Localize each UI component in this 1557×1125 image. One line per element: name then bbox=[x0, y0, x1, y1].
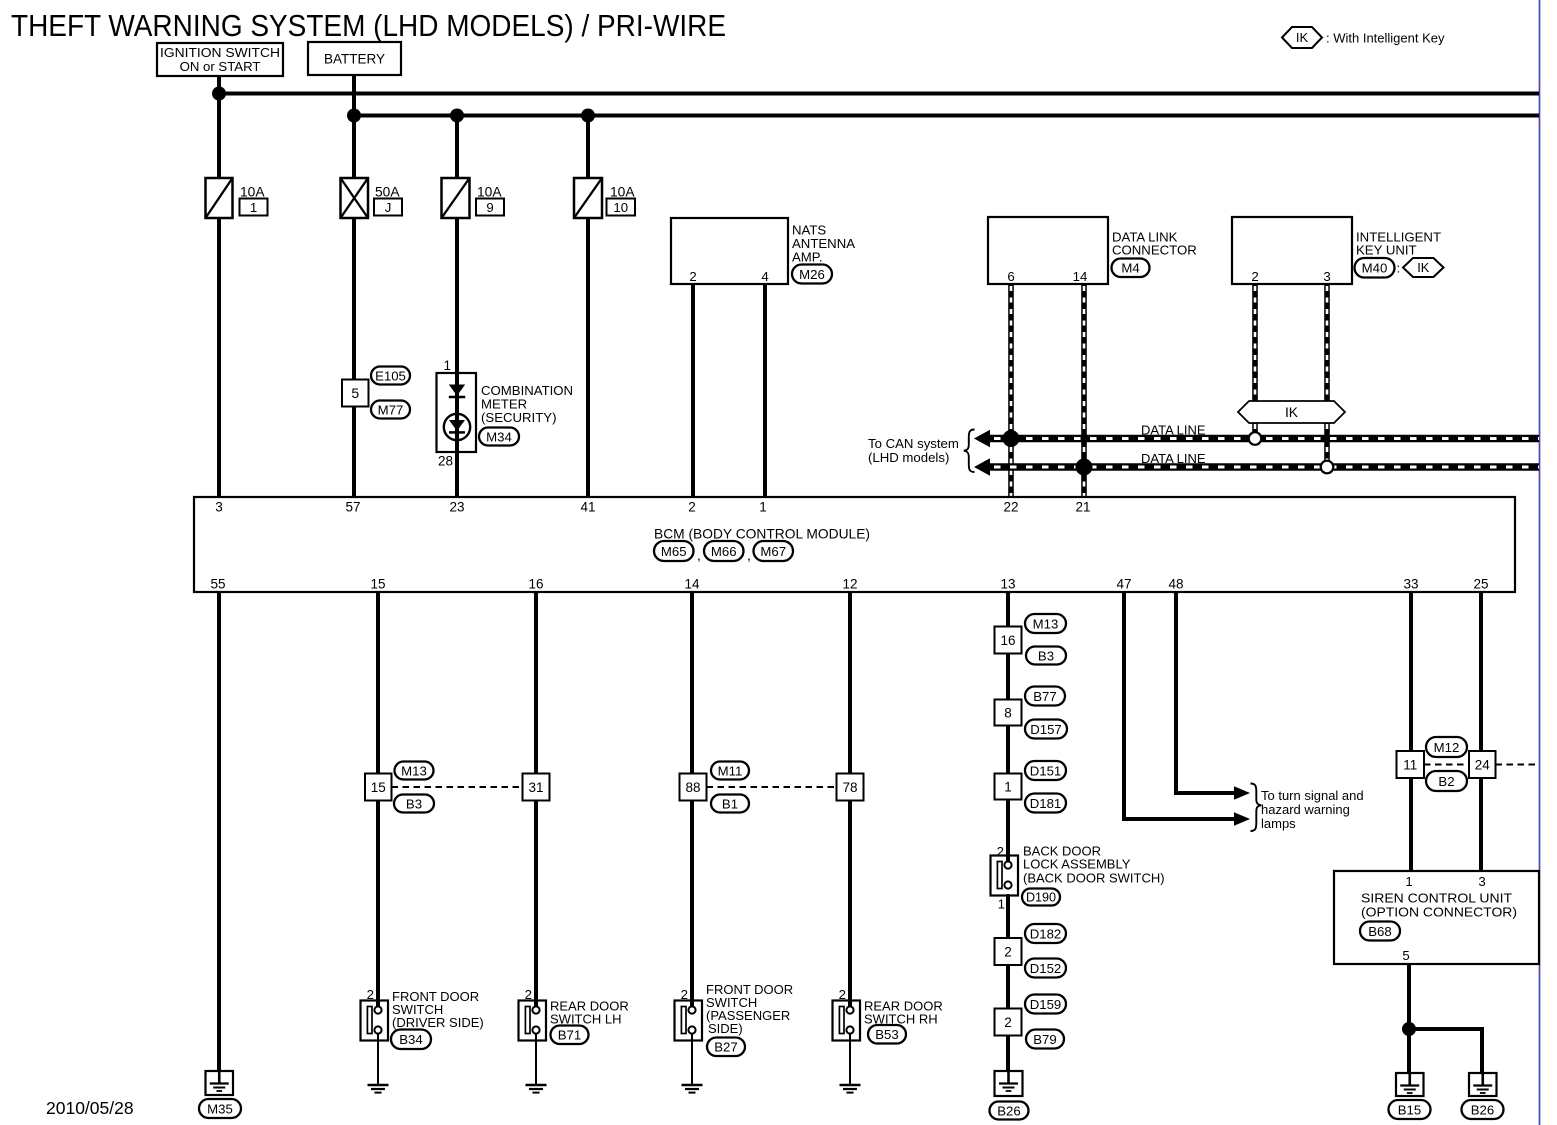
CAN data line 1 bbox=[990, 435, 1539, 442]
dashed link connector 15 to 31 bbox=[392, 786, 523, 788]
svg-text:16: 16 bbox=[528, 577, 543, 592]
svg-text:D181: D181 bbox=[1030, 796, 1062, 811]
ignition switch source box bbox=[157, 43, 283, 76]
BCM top pin 3 bbox=[215, 500, 223, 515]
svg-text:THEFT WARNING SYSTEM (LHD MODE: THEFT WARNING SYSTEM (LHD MODELS) / PRI-… bbox=[11, 9, 726, 43]
svg-text:M13: M13 bbox=[401, 763, 427, 778]
svg-text:16: 16 bbox=[1000, 633, 1015, 648]
svg-text:D182: D182 bbox=[1030, 926, 1062, 941]
wire fuse 10 to BCM pin 41 bbox=[586, 218, 590, 498]
combination meter pin 1 bbox=[443, 358, 451, 373]
BCM bottom pin 13 bbox=[1000, 577, 1015, 592]
connector circle IKU3 data line 2 bbox=[1321, 461, 1334, 474]
wire ignition to bus1 bbox=[217, 76, 221, 93]
svg-text:(DRIVER SIDE): (DRIVER SIDE) bbox=[392, 1015, 484, 1030]
rear door switch LH pin 2 bbox=[525, 987, 532, 1002]
svg-text:9: 9 bbox=[486, 200, 493, 215]
fuse 1 10A bbox=[206, 178, 268, 218]
svg-text:IK: IK bbox=[1296, 30, 1309, 45]
svg-text:(SECURITY): (SECURITY) bbox=[481, 410, 556, 425]
wire front door switch driver to ground bbox=[377, 1034, 379, 1086]
svg-text:B26: B26 bbox=[997, 1103, 1020, 1118]
wire BCM pin55 to ground M35 bbox=[217, 592, 221, 1072]
svg-text:M13: M13 bbox=[1033, 616, 1059, 631]
combination meter labels bbox=[479, 383, 573, 446]
wire rear door switch LH to ground bbox=[535, 1034, 537, 1086]
svg-text:B71: B71 bbox=[558, 1028, 581, 1043]
siren control unit box B68 bbox=[1334, 871, 1539, 964]
to turn signal label bbox=[1251, 784, 1364, 832]
svg-text:AMP.: AMP. bbox=[792, 250, 823, 265]
svg-text:57: 57 bbox=[345, 500, 360, 515]
svg-text:88: 88 bbox=[685, 780, 700, 795]
combination meter pin 28 bbox=[438, 454, 453, 469]
wire BCM pin16 to rear door switch LH bbox=[534, 592, 538, 1001]
dashed stub from connector 24 bbox=[1496, 764, 1539, 766]
svg-text:41: 41 bbox=[580, 500, 595, 515]
svg-text:DATA LINE: DATA LINE bbox=[1141, 451, 1206, 466]
wire rear door switch RH to ground bbox=[849, 1034, 851, 1086]
front door switch passenger labels bbox=[706, 982, 793, 1056]
data line wire IKU pin2 bbox=[1252, 284, 1258, 439]
ground B15 bbox=[1389, 1073, 1431, 1119]
CAN data line 2 bbox=[990, 463, 1539, 470]
data line wire DLC pin14 to BCM pin 21 bbox=[1081, 284, 1087, 498]
wire fuse1 to BCM pin 3 bbox=[217, 218, 221, 498]
BCM bottom pin 14 bbox=[684, 577, 700, 592]
wire bus2 to fuse J bbox=[352, 116, 356, 181]
svg-text:5: 5 bbox=[1402, 948, 1409, 963]
svg-text:BCM (BODY CONTROL MODULE): BCM (BODY CONTROL MODULE) bbox=[654, 527, 870, 542]
wire BCM pin15 to front door switch driver bbox=[376, 592, 380, 1001]
svg-text:10A: 10A bbox=[477, 185, 502, 200]
svg-text:13: 13 bbox=[1000, 577, 1015, 592]
wire BCM pin48 to turn signal lamps bbox=[1174, 592, 1235, 793]
BCM bottom pin 15 bbox=[370, 577, 385, 592]
svg-text:2: 2 bbox=[688, 500, 696, 515]
wire NATS pin2 to BCM pin 2 bbox=[691, 284, 695, 498]
combination meter (security) M34 bbox=[437, 373, 477, 452]
fuse J 50A bbox=[341, 178, 403, 218]
ground front door switch passenger bbox=[682, 1085, 703, 1093]
svg-text:47: 47 bbox=[1116, 577, 1131, 592]
svg-text:1: 1 bbox=[1004, 779, 1012, 794]
svg-text:2: 2 bbox=[1004, 1015, 1012, 1030]
svg-text:BATTERY: BATTERY bbox=[324, 52, 385, 67]
svg-text:lamps: lamps bbox=[1261, 816, 1296, 831]
power bus 1 (ignition) bbox=[219, 92, 1539, 96]
connector circle IKU2 data line 1 bbox=[1249, 432, 1262, 445]
battery source box bbox=[308, 42, 401, 75]
data link connector M4 bbox=[988, 217, 1108, 284]
svg-text:50A: 50A bbox=[375, 185, 400, 200]
to CAN system label bbox=[868, 430, 975, 473]
wire bus1 to fuse 1 bbox=[217, 94, 221, 181]
dashed link connector 88 to 78 bbox=[707, 786, 838, 788]
junction siren ground branch bbox=[1402, 1022, 1416, 1036]
svg-text:78: 78 bbox=[842, 780, 857, 795]
data line wire DLC pin6 to BCM pin 22 bbox=[1008, 284, 1014, 498]
connector 15 M13/B3 bbox=[365, 762, 434, 813]
title bbox=[11, 9, 726, 43]
BCM bottom pin 55 bbox=[210, 577, 225, 592]
data line wire IKU pin3 bbox=[1324, 284, 1330, 467]
svg-text:B2: B2 bbox=[1438, 774, 1454, 789]
wire BCM pin12 to rear door switch RH bbox=[848, 592, 852, 1001]
svg-text:22: 22 bbox=[1003, 500, 1018, 515]
svg-text:B53: B53 bbox=[875, 1027, 898, 1042]
svg-text:B77: B77 bbox=[1033, 689, 1056, 704]
ground rear door switch LH bbox=[526, 1085, 547, 1093]
rear door switch RH B53 bbox=[833, 1000, 861, 1041]
intelligent key unit M40 bbox=[1232, 217, 1352, 284]
svg-text:B34: B34 bbox=[399, 1032, 422, 1047]
svg-text:B79: B79 bbox=[1033, 1032, 1056, 1047]
junction bus1/ignition bbox=[212, 87, 226, 101]
connector 16 M13/B3 bbox=[995, 614, 1067, 665]
svg-text:KEY UNIT: KEY UNIT bbox=[1356, 243, 1417, 258]
svg-text:15: 15 bbox=[370, 577, 385, 592]
power bus 2 (battery) bbox=[354, 114, 1539, 118]
wire BCM pin33 to siren pin1 bbox=[1409, 592, 1413, 872]
back door lock assembly switch D190 bbox=[991, 855, 1019, 896]
svg-text:1: 1 bbox=[250, 200, 257, 215]
svg-text:IK: IK bbox=[1417, 260, 1430, 275]
ground B26 back door circuit bbox=[990, 1071, 1029, 1120]
BCM bottom pin 16 bbox=[528, 577, 543, 592]
wire bus2 to fuse 9 bbox=[455, 116, 459, 181]
svg-text:2: 2 bbox=[1251, 269, 1258, 284]
BCM bottom pin 33 bbox=[1403, 577, 1418, 592]
svg-text:23: 23 bbox=[449, 500, 464, 515]
svg-text:M34: M34 bbox=[486, 429, 512, 444]
svg-text:J: J bbox=[385, 200, 392, 215]
BCM top pin 57 bbox=[345, 500, 360, 515]
svg-text:: With Intelligent Key: : With Intelligent Key bbox=[1326, 31, 1445, 46]
rear door switch RH labels bbox=[864, 999, 943, 1044]
svg-text:M66: M66 bbox=[711, 544, 737, 559]
svg-text:M67: M67 bbox=[760, 544, 786, 559]
connector 31 bbox=[523, 774, 550, 801]
svg-text:SWITCH LH: SWITCH LH bbox=[550, 1012, 622, 1027]
ground rear door switch RH bbox=[840, 1085, 861, 1093]
svg-text:33: 33 bbox=[1403, 577, 1418, 592]
blue page border bbox=[1539, 0, 1541, 1125]
BCM top pin 1 bbox=[759, 500, 767, 515]
arrow to CAN system line 2 bbox=[974, 458, 990, 476]
svg-text:M77: M77 bbox=[378, 402, 404, 417]
back door switch pin 1 bbox=[998, 897, 1005, 912]
svg-text:B68: B68 bbox=[1368, 924, 1391, 939]
svg-text:31: 31 bbox=[528, 780, 543, 795]
svg-text:D190: D190 bbox=[1026, 891, 1056, 905]
ground M35 bbox=[199, 1071, 241, 1118]
svg-text:10A: 10A bbox=[240, 185, 265, 200]
svg-text:M4: M4 bbox=[1121, 261, 1139, 276]
ground front door switch driver bbox=[368, 1085, 389, 1093]
connector 2 D182/D152 bbox=[995, 924, 1067, 978]
svg-text:21: 21 bbox=[1075, 500, 1090, 515]
wire battery to bus2 bbox=[352, 75, 356, 117]
svg-text:B27: B27 bbox=[714, 1040, 737, 1055]
svg-text:To turn signal and: To turn signal and bbox=[1261, 788, 1364, 803]
svg-text:M11: M11 bbox=[718, 763, 743, 778]
svg-text:4: 4 bbox=[761, 269, 768, 284]
svg-text:48: 48 bbox=[1168, 577, 1183, 592]
svg-text:25: 25 bbox=[1473, 577, 1488, 592]
data line label 2 bbox=[1141, 451, 1206, 466]
BCM top pin 41 bbox=[580, 500, 595, 515]
BCM bottom pin 47 bbox=[1116, 577, 1131, 592]
wire combination meter to BCM pin 23 bbox=[455, 452, 459, 498]
NATS antenna amp labels bbox=[792, 223, 855, 284]
svg-text:,: , bbox=[747, 547, 751, 563]
arrow turn signal 48 bbox=[1234, 786, 1250, 800]
svg-text:B1: B1 bbox=[722, 796, 738, 811]
connector 88 M11/B1 bbox=[680, 762, 750, 813]
junction DLC6 data line 1 bbox=[1003, 430, 1020, 447]
front door switch passenger B27 bbox=[675, 1000, 703, 1041]
connector 24 bbox=[1469, 751, 1496, 778]
svg-text:To CAN system: To CAN system bbox=[868, 436, 959, 451]
svg-text:1: 1 bbox=[1405, 874, 1412, 889]
svg-text:LOCK ASSEMBLY: LOCK ASSEMBLY bbox=[1023, 857, 1131, 872]
svg-text:(BACK DOOR SWITCH): (BACK DOOR SWITCH) bbox=[1023, 871, 1165, 886]
svg-text:B15: B15 bbox=[1398, 1102, 1421, 1117]
svg-text:E105: E105 bbox=[375, 368, 406, 383]
svg-text:IGNITION SWITCH: IGNITION SWITCH bbox=[160, 45, 280, 60]
connector 1 D151/D181 bbox=[995, 761, 1067, 813]
svg-text:SIREN CONTROL UNIT: SIREN CONTROL UNIT bbox=[1361, 891, 1512, 906]
svg-text:1: 1 bbox=[998, 897, 1005, 912]
wire fuse J to BCM pin 57 bbox=[352, 218, 356, 498]
connector 78 bbox=[837, 774, 864, 801]
svg-text:2: 2 bbox=[1004, 944, 1012, 959]
svg-text:11: 11 bbox=[1403, 757, 1417, 772]
svg-text:hazard warning: hazard warning bbox=[1261, 802, 1350, 817]
svg-text:M40: M40 bbox=[1362, 261, 1388, 276]
arrow to CAN system line 1 bbox=[974, 430, 990, 448]
svg-text:3: 3 bbox=[1478, 874, 1485, 889]
fuse 10 10A bbox=[574, 178, 635, 218]
svg-text:12: 12 bbox=[842, 577, 857, 592]
svg-text:B3: B3 bbox=[406, 796, 422, 811]
BCM connector ovals M65 M66 M67 bbox=[654, 541, 793, 563]
svg-text:M12: M12 bbox=[1434, 740, 1460, 755]
fuse 9 10A bbox=[442, 178, 505, 218]
BCM label bbox=[654, 527, 870, 542]
svg-text:SIDE): SIDE) bbox=[708, 1021, 743, 1036]
wire fuse 9 to combination meter bbox=[455, 218, 459, 373]
legend IK symbol: With Intelligent Key bbox=[1282, 27, 1445, 48]
svg-text:DATA LINE: DATA LINE bbox=[1141, 423, 1206, 438]
svg-text:B26: B26 bbox=[1471, 1102, 1494, 1117]
front door switch driver side B34 bbox=[361, 1000, 389, 1041]
svg-text::: : bbox=[1397, 261, 1401, 276]
wire branch to ground B26 bbox=[1409, 1027, 1482, 1073]
svg-text:24: 24 bbox=[1475, 757, 1491, 772]
back door switch pin 2 bbox=[997, 844, 1004, 859]
ground B26 siren bbox=[1462, 1073, 1504, 1119]
svg-text:28: 28 bbox=[438, 454, 453, 469]
svg-text:5: 5 bbox=[351, 385, 359, 401]
svg-text:D152: D152 bbox=[1030, 961, 1062, 976]
wire siren pin5 to ground bbox=[1407, 964, 1411, 1073]
svg-text:1: 1 bbox=[443, 358, 451, 373]
svg-text:M65: M65 bbox=[661, 544, 687, 559]
svg-text:B3: B3 bbox=[1038, 648, 1054, 663]
svg-text:M35: M35 bbox=[207, 1101, 233, 1116]
wire BCM pin13 back door circuit bbox=[1006, 592, 1010, 1072]
BCM top pin 2 bbox=[688, 500, 696, 515]
svg-text:14: 14 bbox=[1073, 269, 1088, 284]
svg-text:14: 14 bbox=[684, 577, 700, 592]
svg-text:6: 6 bbox=[1007, 269, 1014, 284]
svg-text:55: 55 bbox=[210, 577, 225, 592]
svg-text:D151: D151 bbox=[1030, 763, 1062, 778]
svg-text:1: 1 bbox=[759, 500, 767, 515]
BCM bottom pin 12 bbox=[842, 577, 857, 592]
BCM top pin 23 bbox=[449, 500, 464, 515]
wire front door switch passenger to ground bbox=[691, 1034, 693, 1086]
connector 2 D159/B79 bbox=[995, 995, 1067, 1049]
connector 8 B77/D157 bbox=[995, 687, 1068, 739]
svg-text:10: 10 bbox=[613, 200, 628, 215]
front door switch passenger pin 2 bbox=[681, 987, 688, 1002]
svg-text:2: 2 bbox=[689, 269, 696, 284]
rear door switch LH labels bbox=[550, 999, 629, 1045]
svg-text:3: 3 bbox=[215, 500, 223, 515]
junction bus2 battery bbox=[347, 109, 361, 123]
junction bus2 fuse10 bbox=[581, 109, 595, 123]
svg-text:M26: M26 bbox=[799, 267, 825, 282]
intelligent key unit labels bbox=[1355, 230, 1444, 278]
BCM bottom pin 48 bbox=[1168, 577, 1183, 592]
svg-text:D157: D157 bbox=[1030, 722, 1062, 737]
BCM body control module box bbox=[194, 497, 1515, 592]
svg-text:D159: D159 bbox=[1030, 997, 1062, 1012]
wire back door switch to connector 2 bbox=[1007, 894, 1010, 939]
rear door switch RH pin 2 bbox=[839, 987, 846, 1002]
junction bus2 fuse9 bbox=[450, 109, 464, 123]
wire bus2 to fuse 10 bbox=[586, 116, 590, 181]
svg-text:2010/05/28: 2010/05/28 bbox=[46, 1098, 134, 1118]
svg-text:(OPTION CONNECTOR): (OPTION CONNECTOR) bbox=[1361, 905, 1517, 920]
wire BCM pin14 to front door switch passenger bbox=[690, 592, 694, 1001]
connector 5 E105/M77 on fuse-J wire bbox=[342, 367, 410, 419]
connector 11 M12/B2 bbox=[1397, 737, 1468, 791]
BCM top pin 22 bbox=[1003, 500, 1018, 515]
wire NATS pin4 to BCM pin 1 bbox=[763, 284, 767, 498]
IK flag on intelligent key wires bbox=[1238, 401, 1345, 423]
svg-text:(LHD models): (LHD models) bbox=[868, 450, 949, 465]
front door switch driver side pin 2 bbox=[367, 987, 374, 1002]
svg-text:,: , bbox=[697, 547, 701, 563]
svg-text:IK: IK bbox=[1285, 405, 1299, 420]
wire BCM pin25 to siren pin3 bbox=[1479, 592, 1483, 872]
NATS antenna amp M26 bbox=[671, 218, 788, 284]
rear door switch LH B71 bbox=[519, 1000, 547, 1041]
BCM bottom pin 25 bbox=[1473, 577, 1488, 592]
back door lock assembly labels bbox=[1022, 844, 1165, 906]
BCM top pin 21 bbox=[1075, 500, 1090, 515]
data line label 1 bbox=[1141, 423, 1206, 438]
arrow turn signal 47 bbox=[1234, 812, 1250, 826]
front door switch driver labels bbox=[391, 989, 484, 1049]
date stamp bbox=[46, 1098, 134, 1118]
svg-text:CONNECTOR: CONNECTOR bbox=[1112, 243, 1197, 258]
svg-text:3: 3 bbox=[1323, 269, 1330, 284]
svg-text:10A: 10A bbox=[610, 185, 635, 200]
svg-text:15: 15 bbox=[371, 780, 386, 795]
svg-text:8: 8 bbox=[1004, 705, 1012, 720]
dashed link connector 11 to 24 bbox=[1424, 764, 1469, 766]
wire BCM pin47 to turn signal lamps bbox=[1122, 592, 1235, 819]
data link connector labels bbox=[1112, 230, 1197, 278]
junction DLC14 data line 2 bbox=[1076, 459, 1093, 476]
svg-text:ON or START: ON or START bbox=[180, 59, 261, 74]
